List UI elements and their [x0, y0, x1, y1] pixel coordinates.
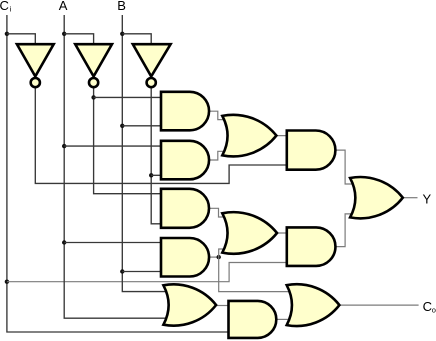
svg-text:o: o: [432, 305, 436, 314]
svg-text:A: A: [59, 0, 68, 13]
AND gate G3 (A'·B'): [161, 189, 209, 228]
wire B to G4 pin2: [122, 271, 161, 273]
wire A to G4 pin1: [64, 242, 161, 244]
OR gate G9 (A + B): [163, 284, 216, 325]
wire Ci rail (down and along bottom to G10 pin2): [7, 15, 229, 332]
AND gate G1 (A'·B): [161, 92, 209, 131]
inverter U2 (A'): [75, 44, 112, 76]
OR gate G11 (carry output OR): [287, 284, 340, 326]
wire G6 output to G8 pin1: [277, 232, 287, 234]
AND gate G10 ((A+B)·Ci): [229, 301, 277, 338]
wire B to G1 pin2: [122, 125, 161, 127]
AND gate G8 ((A XNOR B)·Ci): [287, 227, 336, 266]
wire B' rail from U3 down to G3 pin2: [151, 88, 161, 224]
node Ci-inv branch: [5, 32, 9, 36]
svg-text:Y: Y: [423, 191, 432, 206]
wire G3 output to G6 pin1: [209, 208, 227, 217]
node B' to G2: [149, 173, 153, 177]
wire A to G2 pin1: [64, 145, 161, 147]
node A to G4: [62, 240, 66, 244]
wire G10 output to G11 pin2: [276, 318, 291, 320]
wire G1 output to G5 pin1: [209, 111, 227, 119]
wire G4 output to junction: [209, 256, 219, 258]
wire G5 output to G7 pin1: [276, 135, 286, 138]
node B to G1: [120, 124, 124, 128]
wire G11 output to Co label: [339, 304, 418, 306]
AND gate G7 ((A XOR B)·Ci'): [287, 131, 336, 170]
inverter U1 (Ci'): [17, 44, 54, 76]
wire G8 output to G12 pin2: [335, 214, 354, 247]
wire G2 output to G5 pin2: [209, 151, 227, 160]
svg-text:C: C: [423, 299, 432, 314]
svg-text:B: B: [117, 0, 126, 13]
wire junction down to G11 pin1: [219, 257, 292, 292]
wire A to inverter U2 input: [64, 34, 93, 44]
wire Ci' rail from U1 to G7 pin2 (routes under G2): [35, 88, 286, 184]
OR gate G5 (A'B + AB'): [222, 115, 276, 157]
svg-text:C: C: [0, 0, 9, 13]
node G4 output branch: [217, 255, 221, 259]
node A to G2: [62, 144, 66, 148]
wire B rail (down then to G9 pin1): [122, 15, 167, 292]
node B-inv branch: [120, 32, 124, 36]
wire G9 output to G10 pin1: [216, 305, 228, 307]
node Ci to G8 branch: [5, 280, 9, 284]
node A' to G1: [91, 95, 95, 99]
wire G7 output to G12 pin1: [335, 150, 354, 184]
OR gate G12 (sum output OR): [350, 177, 403, 218]
wire Ci branch to G8 pin2: [7, 263, 287, 282]
OR gate G6 (A'B' + AB): [222, 212, 277, 254]
wire B to inverter U3 input: [122, 34, 151, 44]
wire A' rail from U2 down to G3 pin1: [94, 88, 161, 194]
AND gate G2 (A·B'): [161, 141, 209, 180]
wire B' to G2 pin2: [151, 174, 161, 176]
node A-inv branch: [62, 32, 66, 36]
wire junction up to G6 pin2: [219, 249, 227, 257]
wire A' to G1 pin1: [94, 96, 161, 98]
wire A rail (down then to G9 pin2): [64, 15, 167, 318]
AND gate G4 (A·B): [161, 238, 209, 277]
wire Ci to inverter U1 input: [7, 34, 35, 44]
node B to G4: [120, 269, 124, 273]
inverter U3 (B'): [133, 44, 171, 76]
wire G12 output to Y label: [403, 197, 418, 199]
